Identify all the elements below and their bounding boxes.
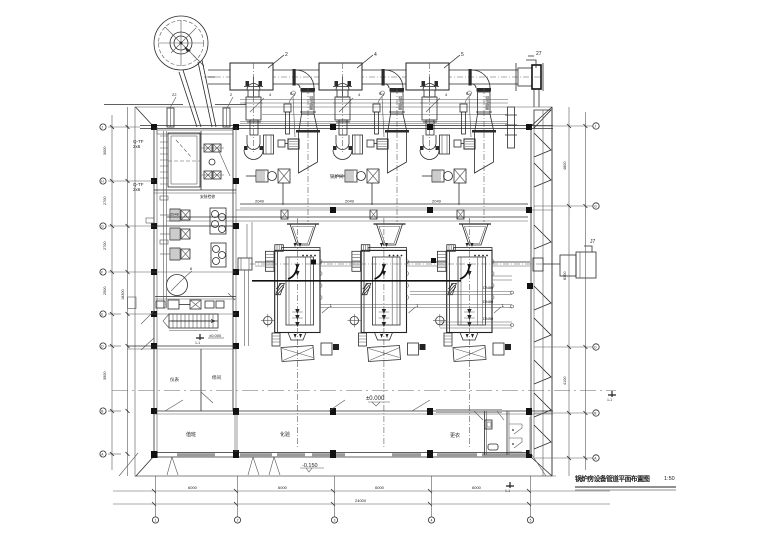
outer platform boundary (128, 107, 553, 477)
svg-text:锅炉间: 锅炉间 (330, 173, 344, 180)
svg-text:5: 5 (461, 52, 464, 58)
blowdown main line (252, 276, 512, 281)
left riser pipes along annex wall (146, 131, 215, 308)
water tank upper-left room (168, 131, 201, 190)
svg-text:1-1: 1-1 (607, 398, 612, 402)
svg-text:3900: 3900 (103, 372, 107, 380)
svg-text:2049: 2049 (345, 199, 355, 204)
top wall columns (151, 124, 532, 130)
svg-text:1-1: 1-1 (505, 489, 510, 493)
softener tanks annex (210, 208, 226, 267)
dimension texts left (103, 147, 125, 380)
bottom ground line (136, 475, 557, 477)
hall divider line (236, 207, 553, 213)
duct support rails (240, 100, 508, 124)
top wall (140, 126, 553, 129)
left main wall (154, 127, 157, 457)
svg-text:2500: 2500 (103, 287, 107, 295)
svg-text:2049: 2049 (255, 199, 265, 204)
section mark bottom (505, 482, 514, 493)
section mark near stairs (195, 334, 204, 345)
left wall columns (151, 178, 157, 414)
svg-text:2: 2 (237, 518, 239, 522)
feed pump units annex middle (160, 209, 190, 221)
boiler B1 (261, 218, 339, 448)
conveyor coupling and drive right (533, 239, 596, 278)
svg-text:2x6: 2x6 (133, 144, 141, 149)
svg-text:6000: 6000 (188, 485, 198, 490)
small pumps upper-left (200, 144, 230, 179)
svg-text:2700: 2700 (103, 197, 107, 205)
pipe bundles right (320, 285, 514, 328)
partition x=236 bottom rooms (235, 414, 237, 452)
right dimension line (567, 107, 587, 476)
duct end fitting right (516, 51, 543, 91)
door V marks under bottom wall (119, 453, 546, 476)
pipes above pump row (155, 297, 236, 300)
svg-text:18300: 18300 (121, 289, 125, 300)
svg-text:2700: 2700 (103, 242, 107, 250)
svg-text:锅炉房设备管道平面布置图: 锅炉房设备管道平面布置图 (575, 474, 650, 483)
svg-text:4100: 4100 (563, 377, 567, 385)
svg-text:E: E (101, 312, 103, 316)
Q-TF labels (133, 139, 144, 192)
annex right wall x=236 (233, 127, 239, 411)
bottom room labels (186, 431, 460, 439)
svg-text:±0.000: ±0.000 (366, 396, 385, 402)
svg-text:27: 27 (536, 51, 542, 57)
svg-text:DN80: DN80 (483, 285, 494, 290)
svg-text:3000: 3000 (103, 147, 107, 155)
riser pipes through top wall (104, 92, 246, 127)
svg-text:2049: 2049 (432, 199, 442, 204)
right grid bubbles (534, 123, 599, 461)
svg-text:±0.000: ±0.000 (209, 333, 222, 338)
flue riser at right (505, 88, 539, 148)
dimension texts right (563, 162, 567, 385)
svg-text:B: B (101, 409, 103, 413)
hall label (330, 173, 344, 180)
left dimension chains (110, 115, 130, 470)
svg-text:6000: 6000 (472, 485, 482, 490)
pipes to conveyor head (247, 222, 252, 258)
svg-text:3: 3 (334, 518, 336, 522)
svg-text:4: 4 (431, 518, 433, 522)
svg-text:2948: 2948 (170, 212, 180, 217)
fan/chimney F1 top-left (154, 16, 208, 70)
porch box and annex doors (128, 297, 155, 350)
bottom dimension chains (113, 485, 610, 506)
round water tank (167, 266, 194, 296)
section line 1-1 (112, 390, 616, 392)
bottom exterior wall with windows (151, 450, 532, 458)
boiler train 3 (406, 63, 496, 222)
svg-text:DN80: DN80 (483, 299, 494, 304)
left grid bubbles (100, 124, 154, 457)
boiler train 1 (230, 63, 320, 222)
svg-text:修间: 修间 (212, 374, 221, 381)
svg-text:4: 4 (374, 52, 377, 58)
level label stairs (208, 333, 224, 338)
level label -0.150 (300, 463, 324, 472)
bottom grid bubbles (152, 476, 533, 523)
boiler B3 (433, 218, 511, 448)
svg-text:仪表: 仪表 (170, 376, 179, 383)
svg-text:DN50: DN50 (483, 316, 494, 321)
svg-text:2x6: 2x6 (133, 187, 141, 192)
slag conveyor line (238, 258, 548, 289)
svg-text:更衣: 更衣 (450, 432, 460, 439)
svg-text:1: 1 (155, 518, 157, 522)
svg-text:22: 22 (172, 92, 177, 97)
right wall with buttresses (531, 107, 552, 476)
svg-text:8300: 8300 (563, 272, 567, 280)
staircase (163, 314, 218, 331)
downcomer pipe left of boiler1 (245, 270, 249, 346)
svg-text:2: 2 (285, 52, 288, 58)
svg-text:安装检修: 安装检修 (200, 194, 215, 199)
section mark right (607, 391, 616, 402)
bottom hall wall y=411 (154, 400, 553, 415)
boiler B2 (348, 218, 426, 448)
svg-text:5: 5 (530, 518, 532, 522)
leader labels above boxes (268, 52, 464, 68)
svg-text:1:50: 1:50 (664, 476, 675, 482)
tank room door (228, 293, 235, 300)
svg-text:B: B (594, 411, 596, 415)
svg-text:化验: 化验 (280, 431, 290, 438)
annex room walls horizontal (128, 130, 237, 349)
svg-text:值班: 值班 (186, 431, 196, 438)
svg-text:6000: 6000 (278, 485, 288, 490)
svg-text:4800: 4800 (563, 162, 567, 170)
lower-left rooms partition (170, 349, 221, 411)
svg-text:24000: 24000 (355, 498, 367, 503)
title (575, 474, 676, 490)
svg-text:1-1: 1-1 (195, 341, 200, 345)
svg-text:F: F (101, 270, 103, 274)
svg-text:6000: 6000 (375, 485, 385, 490)
svg-text:J7: J7 (590, 239, 596, 245)
main flue duct horizontal (204, 70, 542, 84)
boiler train 2 (319, 63, 409, 222)
level label ±0.000 (366, 396, 390, 406)
bathroom bottom-right (436, 410, 532, 456)
chimney legs (179, 60, 216, 127)
pump assembly row (156, 300, 224, 309)
pipe rack lines across hall (167, 199, 528, 222)
